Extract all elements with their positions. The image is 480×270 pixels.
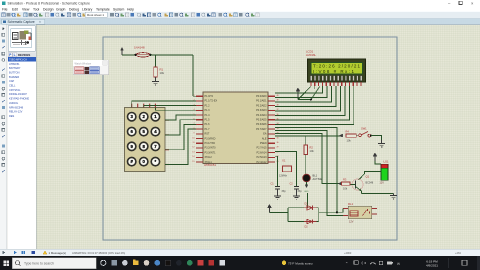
- switch SW1: [356, 127, 372, 137]
- wire (coil return): [275, 130, 343, 215]
- svg-text:11: 11: [193, 142, 195, 144]
- svg-text:P0.6/AD6: P0.6/AD6: [256, 123, 267, 126]
- svg-text:Type here to search: Type here to search: [24, 261, 54, 265]
- wire (LCD data 3): [275, 86, 332, 102]
- wire (LCD data 4): [275, 86, 336, 107]
- svg-text:10: 10: [192, 137, 194, 139]
- svg-text:RL1: RL1: [348, 202, 354, 206]
- wire (XTAL1): [275, 152, 297, 166]
- svg-text:7: 7: [193, 123, 194, 125]
- svg-text:4: 4: [193, 109, 194, 111]
- svg-text:NPN-BC548: NPN-BC548: [9, 105, 24, 109]
- wire (keypad col 3): [155, 108, 196, 111]
- svg-text:P1.5: P1.5: [205, 119, 211, 122]
- power terminal +5V: [374, 153, 377, 161]
- svg-text:DEVICES: DEVICES: [18, 53, 30, 57]
- wire: [371, 136, 382, 140]
- svg-text:AT89C51: AT89C51: [9, 62, 20, 66]
- sheet border: [103, 37, 397, 240]
- svg-text:BC548: BC548: [366, 181, 374, 184]
- svg-text:P3.3/INT1: P3.3/INT1: [205, 151, 217, 154]
- svg-text:SW1: SW1: [361, 127, 367, 131]
- svg-text:P1.0/T2: P1.0/T2: [205, 95, 214, 98]
- svg-text:View: View: [22, 7, 30, 11]
- diode D2 1N4007: [304, 219, 317, 228]
- power terminal (LCD VSS/VEE): [297, 88, 300, 99]
- svg-text:BATTERY: BATTERY: [9, 66, 21, 70]
- wire (relay drive): [275, 127, 337, 212]
- svg-text:14: 14: [192, 156, 194, 158]
- svg-text:73°F Mostly sunny: 73°F Mostly sunny: [288, 261, 313, 265]
- svg-text:5: 5: [193, 114, 194, 116]
- wire (LCD data 5): [275, 86, 341, 111]
- svg-text:LS1: LS1: [384, 160, 389, 164]
- power terminal (relay supply): [268, 205, 271, 213]
- svg-text:3: 3: [193, 104, 194, 106]
- diode D3 1N4148: [134, 46, 150, 57]
- svg-text:P3.1/TXD: P3.1/TXD: [205, 142, 216, 145]
- svg-text:LM016L: LM016L: [9, 101, 19, 105]
- svg-text:P1.3: P1.3: [205, 109, 211, 112]
- wire (Q1 base line): [275, 133, 341, 183]
- wire (switch line): [275, 135, 342, 137]
- wire (keypad col 2): [144, 106, 196, 108]
- svg-text:8: 8: [193, 128, 194, 130]
- svg-text:ALE: ALE: [262, 137, 267, 140]
- svg-text:10k: 10k: [343, 187, 348, 191]
- svg-text:⌃: ⌃: [345, 262, 348, 266]
- svg-text:Template: Template: [96, 7, 110, 11]
- svg-text:AT89C51: AT89C51: [204, 163, 216, 167]
- wire: [270, 211, 289, 213]
- wire (keypad row 2): [165, 120, 196, 135]
- svg-text:GND: GND: [304, 191, 309, 193]
- svg-text:P1.2: P1.2: [205, 104, 211, 107]
- svg-text:T:20:26 2/20/21: T:20:26 2/20/21: [313, 64, 360, 69]
- wire (VDD stub): [314, 86, 316, 89]
- svg-text:13: 13: [192, 151, 194, 153]
- svg-text:P2.6/A14: P2.6/A14: [256, 151, 267, 154]
- svg-text:Debug: Debug: [69, 7, 79, 11]
- wire (emitter rail): [362, 193, 394, 195]
- svg-text:Schematic Capture: Schematic Capture: [8, 20, 35, 24]
- power terminal (top left): [121, 48, 123, 55]
- svg-text:P0.2/AD2: P0.2/AD2: [256, 104, 267, 107]
- svg-text:29: 29: [277, 147, 279, 149]
- svg-text:CRYSTAL: CRYSTAL: [9, 88, 21, 92]
- wire (buzzer to loop): [307, 182, 308, 208]
- crystal X1: [278, 158, 297, 177]
- svg-text:CELL: CELL: [9, 84, 16, 88]
- capacitor C2 33p: [290, 183, 303, 194]
- svg-text:10k: 10k: [160, 71, 165, 75]
- svg-text:+4963: +4963: [344, 251, 352, 255]
- svg-text:✉: ✉: [397, 262, 400, 266]
- capacitor C1 33p: [271, 183, 287, 194]
- svg-text:P1.1/T2-EX: P1.1/T2-EX: [205, 100, 218, 103]
- svg-text:1 Message(s): 1 Message(s): [49, 251, 67, 255]
- svg-text:33p: 33p: [282, 190, 287, 193]
- svg-text:39: 39: [277, 100, 279, 102]
- svg-text:P0.5/AD5: P0.5/AD5: [256, 119, 267, 122]
- svg-text:15: 15: [192, 161, 194, 163]
- svg-text:BUTTON: BUTTON: [9, 71, 20, 75]
- svg-text:12MHz: 12MHz: [279, 175, 288, 178]
- ground (switch): [378, 140, 385, 147]
- svg-text:10k: 10k: [347, 139, 352, 143]
- svg-text:33p: 33p: [298, 190, 303, 193]
- wire (diag VSS): [298, 87, 311, 100]
- svg-text:P1.4: P1.4: [205, 114, 211, 117]
- wire (diag RS): [311, 87, 320, 100]
- wire (LCD data 7): [275, 86, 349, 120]
- wire (R1 drop): [155, 55, 157, 67]
- terminal arrow: [339, 134, 342, 137]
- wire (keypad row 1): [165, 115, 196, 120]
- svg-text:Q1: Q1: [366, 175, 370, 179]
- svg-text:BUZZER: BUZZER: [9, 75, 19, 79]
- battery B1: [380, 160, 389, 185]
- resistor R4 10k: [346, 129, 357, 142]
- wire (LCD data 2): [275, 86, 327, 98]
- svg-text:2: 2: [193, 100, 194, 102]
- svg-text:Tool: Tool: [33, 7, 39, 11]
- svg-text:6: 6: [193, 119, 194, 121]
- wire (XTAL2): [275, 156, 278, 165]
- diode D1 1N4007: [304, 202, 317, 210]
- svg-text:40: 40: [277, 95, 279, 97]
- node (fuse left junction): [135, 54, 137, 56]
- svg-text:EA: EA: [263, 133, 267, 136]
- svg-text:30: 30: [277, 142, 279, 144]
- svg-text:Design: Design: [43, 7, 54, 11]
- svg-text:ACTIVE: ACTIVE: [313, 177, 323, 181]
- svg-text:P3.0/RXD: P3.0/RXD: [205, 137, 216, 140]
- svg-text:P2.4/A12: P2.4/A12: [256, 161, 267, 164]
- svg-text:31: 31: [277, 137, 279, 139]
- svg-text:P2.5/A13: P2.5/A13: [256, 156, 267, 159]
- svg-text:33: 33: [277, 128, 279, 130]
- wire: [278, 172, 297, 186]
- ground (C1): [274, 189, 281, 199]
- relay RL1: [343, 202, 377, 223]
- svg-text:1N4148: 1N4148: [134, 46, 145, 50]
- svg-text:P0.1/AD1: P0.1/AD1: [256, 100, 267, 103]
- svg-text:4/9/2021: 4/9/2021: [426, 264, 438, 268]
- svg-text:P0.0/AD0: P0.0/AD0: [256, 95, 267, 98]
- svg-text:KEYPAD-PHONE: KEYPAD-PHONE: [9, 97, 29, 101]
- svg-text:P1.6: P1.6: [205, 123, 211, 126]
- svg-text:1: 1: [193, 95, 194, 97]
- svg-text:X1: X1: [282, 158, 286, 162]
- transistor Q1 BC548: [350, 175, 374, 194]
- wire: [298, 99, 311, 101]
- wire (keypad col 1): [132, 101, 196, 108]
- wire: [122, 54, 135, 56]
- wire (loop): [288, 208, 343, 222]
- svg-text:7SEG-MPX1-CA: 7SEG-MPX1-CA: [9, 58, 27, 61]
- svg-text:RST: RST: [205, 133, 210, 136]
- wire (keypad row 3): [165, 124, 196, 149]
- svg-text:Help: Help: [127, 7, 134, 11]
- svg-text:P0.3/AD3: P0.3/AD3: [256, 109, 267, 112]
- svg-text:12V: 12V: [380, 181, 385, 184]
- wire (relay feed): [337, 209, 343, 213]
- svg-text:PSEN: PSEN: [260, 142, 267, 145]
- ground: [152, 77, 159, 85]
- svg-text:CAP: CAP: [9, 79, 15, 83]
- buzzer BZ1: [303, 174, 322, 182]
- wire (keypad row 4): [165, 129, 196, 164]
- wire: [375, 161, 381, 164]
- svg-text:Library: Library: [82, 7, 93, 11]
- wire: [150, 55, 203, 96]
- svg-text:P3.2/INT0: P3.2/INT0: [205, 147, 217, 150]
- svg-text:12V: 12V: [349, 220, 354, 223]
- svg-text:Graph: Graph: [56, 7, 66, 11]
- svg-text:Edit: Edit: [12, 7, 18, 11]
- svg-text:System: System: [113, 7, 124, 11]
- resistor R3 10k: [342, 178, 350, 191]
- svg-text:R3: R3: [343, 178, 347, 182]
- svg-text:P1.7: P1.7: [205, 128, 211, 131]
- svg-text:LM016L: LM016L: [306, 53, 317, 57]
- svg-text:R4: R4: [346, 129, 350, 133]
- node: [310, 99, 312, 101]
- svg-text:Root sheet 1: Root sheet 1: [87, 13, 104, 17]
- svg-text:Watch Window: Watch Window: [75, 62, 92, 65]
- svg-text:ANIMATING: 00:01:37.350000 (CP: ANIMATING: 00:01:37.350000 (CPU load 4%): [72, 251, 125, 255]
- node (fuse right junction): [149, 54, 151, 56]
- svg-text:P0.4/AD4: P0.4/AD4: [256, 114, 267, 117]
- ground (C2): [293, 189, 300, 199]
- resistor R1 10k: [154, 67, 165, 77]
- keypad KP1: [125, 104, 170, 172]
- svg-text:9: 9: [193, 133, 194, 135]
- svg-text:DIODE-1N4007: DIODE-1N4007: [9, 92, 27, 96]
- wire (LCD data 8): [275, 86, 354, 125]
- svg-text:File: File: [2, 7, 8, 11]
- resistor R2 10k: [304, 136, 314, 174]
- svg-text:I:V08 # Rx:1: I:V08 # Rx:1: [313, 69, 354, 74]
- svg-text:R2: R2: [310, 146, 314, 150]
- LCD LCD1 LM016L: [306, 50, 366, 86]
- svg-text:RES: RES: [9, 114, 15, 118]
- svg-text:L: L: [14, 53, 16, 57]
- node (relay feed junction): [336, 211, 338, 213]
- ground (emitter): [390, 194, 397, 199]
- terminal arrow (base): [338, 182, 341, 185]
- svg-text:Simulation - Proteus 8 Profess: Simulation - Proteus 8 Professional - Sc…: [8, 2, 91, 6]
- svg-text:RELAY-12V: RELAY-12V: [9, 110, 23, 114]
- svg-text:P0.7/AD7: P0.7/AD7: [256, 128, 267, 131]
- svg-text:×: ×: [39, 20, 41, 24]
- svg-text:+463: +463: [455, 251, 461, 255]
- svg-text:XTAL2: XTAL2: [205, 156, 213, 159]
- svg-text:P2.7/A15: P2.7/A15: [256, 147, 267, 150]
- microcontroller U1 AT89C51: [192, 92, 278, 167]
- svg-text:12: 12: [192, 147, 194, 149]
- svg-text:10k: 10k: [310, 149, 315, 153]
- wire (LCD data 1): [275, 86, 323, 93]
- wire (collector): [359, 172, 382, 181]
- wire (LCD data 6): [275, 86, 345, 116]
